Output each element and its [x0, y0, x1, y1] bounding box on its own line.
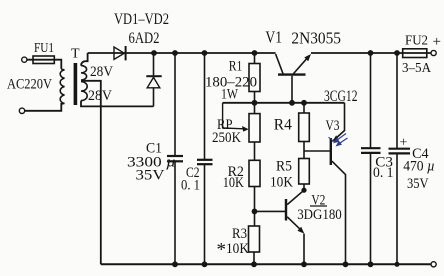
transformer T secondary winding lower: [81, 82, 87, 101]
wire AC input bottom: [25, 103, 62, 111]
wire node B to V2 base: [255, 210, 287, 212]
wire RP to R2: [254, 142, 256, 160]
resistor R1: [249, 64, 260, 92]
transistor V1: [276, 54, 308, 103]
svg-text:V3: V3: [326, 118, 340, 134]
svg-text:28V: 28V: [88, 88, 112, 104]
wire R1 stubs: [254, 53, 256, 114]
junction dot node B: [252, 209, 258, 215]
terminal bottom-left: [19, 108, 24, 113]
wire V3 base line: [304, 150, 330, 152]
transformer T secondary winding upper: [81, 66, 87, 80]
fuse FU1: [33, 56, 54, 64]
svg-text:470 µ: 470 µ: [403, 159, 435, 175]
wire R4 stubs: [303, 103, 305, 159]
annotation blue arrows at V3: [329, 134, 348, 146]
wire bottom rail (ground): [101, 263, 431, 265]
svg-text:R1: R1: [229, 58, 243, 74]
transformer T primary winding: [60, 69, 64, 105]
svg-text:35V: 35V: [407, 176, 429, 192]
diode VD2: [146, 53, 161, 106]
svg-text:250K: 250K: [212, 130, 241, 146]
wire R2 to node B: [254, 187, 256, 227]
svg-text:10K: 10K: [223, 175, 244, 191]
wire node A line (R1 bottom to V3 emitter): [223, 102, 345, 104]
capacitor C4: [389, 53, 411, 264]
svg-text:FU1: FU1: [34, 41, 54, 56]
junction dot R5 V2 collector: [301, 188, 306, 193]
svg-text:FU2: FU2: [405, 34, 428, 49]
wire top rail left (rectifier output): [88, 52, 276, 54]
svg-text:VD1–VD2: VD1–VD2: [114, 11, 169, 28]
capacitor C3: [361, 53, 381, 264]
svg-text:1W: 1W: [221, 87, 239, 103]
svg-text:3–5A: 3–5A: [402, 61, 432, 76]
resistor R3: [249, 226, 260, 252]
svg-text:28V: 28V: [90, 64, 113, 80]
svg-text:3DG180: 3DG180: [297, 207, 342, 223]
junction dots top rail: [151, 50, 400, 56]
svg-text:R4: R4: [274, 117, 292, 134]
potentiometer RP wiper arrow: [223, 103, 244, 129]
svg-text:0. 1: 0. 1: [373, 165, 394, 181]
capacitor C1: [167, 53, 183, 264]
junction dots bottom rail: [172, 261, 399, 267]
svg-text:0. 1: 0. 1: [181, 178, 200, 194]
svg-text:R5: R5: [276, 159, 292, 175]
svg-text:T: T: [71, 47, 80, 62]
terminal top-left: [22, 57, 27, 62]
terminal output minus: [431, 262, 436, 267]
svg-text:AC220V: AC220V: [7, 77, 52, 93]
svg-text:V1: V1: [265, 28, 282, 47]
wire R5 bottom: [303, 184, 305, 190]
transistor V2: [286, 190, 304, 264]
resistor R2: [249, 160, 260, 186]
svg-text:35V: 35V: [136, 168, 165, 184]
diode VD1: [114, 46, 126, 60]
potentiometer RP: [249, 114, 260, 142]
resistor R4: [299, 113, 310, 142]
terminal output plus: [431, 50, 436, 55]
capacitor C2: [197, 53, 213, 264]
transistor V3: [331, 103, 346, 264]
resistor R5: [299, 159, 310, 185]
wire AC input top: [27, 60, 61, 69]
svg-text:3CG12: 3CG12: [324, 88, 358, 105]
wire top rail right (output to FU2): [311, 52, 431, 54]
transformer T core: [74, 63, 78, 105]
svg-text:10K: 10K: [270, 175, 293, 191]
svg-text:*10K: *10K: [217, 240, 250, 261]
fuse FU2: [403, 49, 427, 58]
svg-text:R3: R3: [232, 226, 247, 242]
wire center tap: [81, 81, 101, 264]
wire secondary top to rail: [81, 53, 88, 66]
svg-text:+: +: [400, 135, 408, 150]
junction dots node A: [252, 100, 307, 106]
svg-text:2N3055: 2N3055: [291, 29, 341, 48]
svg-text:+: +: [433, 34, 441, 50]
svg-text:6AD2: 6AD2: [129, 30, 160, 47]
wire secondary bottom to VD2 anode: [81, 101, 154, 107]
wire R3 bottom: [253, 252, 255, 264]
